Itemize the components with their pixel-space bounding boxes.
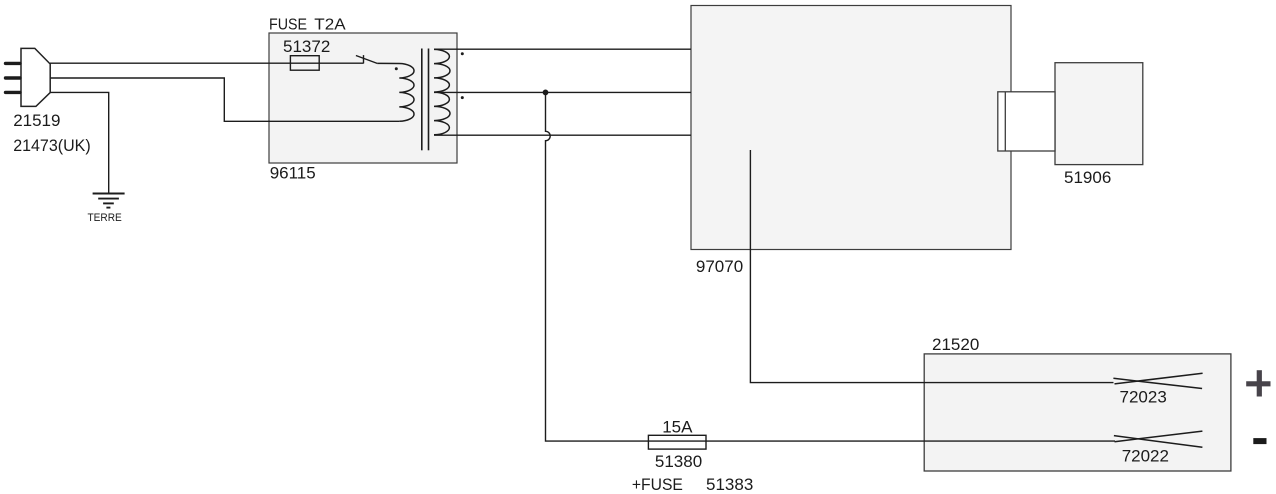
wire secondary top tap to 97070 <box>457 48 691 50</box>
svg-text:72022: 72022 <box>1122 447 1169 466</box>
mains plug 21519 / 21473(UK) <box>21 48 50 106</box>
fuse F2 51380 (15A) <box>648 435 706 449</box>
svg-text:72023: 72023 <box>1120 388 1167 407</box>
switch S1 arm <box>356 56 377 64</box>
svg-text:51383: 51383 <box>706 475 753 494</box>
switch S1 contact tick <box>363 55 365 63</box>
svg-text:21519: 21519 <box>13 111 60 130</box>
transformer T1 secondary polarity dot (middle) <box>461 96 464 99</box>
transformer T1 secondary winding <box>434 49 450 134</box>
svg-text:21520: 21520 <box>932 335 979 354</box>
svg-text:51906: 51906 <box>1064 168 1111 187</box>
transformer T1 primary polarity dot <box>395 67 398 70</box>
wire minus branch (junction down with hop, to 72022) <box>546 92 1116 441</box>
plus terminal symbol <box>1246 370 1270 396</box>
junction dot on middle wire <box>543 90 549 96</box>
svg-text:+FUSE: +FUSE <box>632 475 683 494</box>
splice symbol 72023 <box>1113 373 1202 388</box>
wire live (plug to fuse/switch) <box>50 62 364 64</box>
wire secondary middle tap to 97070 <box>457 91 691 93</box>
module box 96115 (transformer unit) <box>269 33 457 163</box>
ground symbol TERRE <box>93 194 125 208</box>
main unit box 97070 <box>691 6 1011 250</box>
wire neutral (plug to transformer primary bottom) <box>50 78 399 121</box>
secondary tap wires inside box <box>434 49 457 135</box>
wire plus branch (inside 97070 down to 72023) <box>750 150 1113 383</box>
svg-text:T2A: T2A <box>314 16 346 33</box>
transformer T1 primary winding <box>377 63 414 121</box>
splice symbol 72022 <box>1114 431 1203 447</box>
svg-text:96115: 96115 <box>270 164 316 183</box>
svg-text:TERRE: TERRE <box>88 212 122 224</box>
svg-text:15A: 15A <box>662 418 693 437</box>
svg-text:51372: 51372 <box>283 37 330 56</box>
plug pins <box>6 63 21 92</box>
svg-text:97070: 97070 <box>696 257 743 276</box>
box 51906 <box>1055 63 1143 165</box>
transformer T1 secondary polarity dot (top) <box>461 52 464 55</box>
battery box 21520 <box>924 354 1231 471</box>
minus terminal symbol <box>1253 438 1266 444</box>
svg-text:21473(UK): 21473(UK) <box>13 137 91 155</box>
fuse F1 51372 <box>290 56 319 70</box>
transformer core <box>422 49 429 151</box>
svg-text:51380: 51380 <box>655 452 702 471</box>
connector plug of 51906 <box>998 92 1055 151</box>
wire secondary bottom tap to 97070 <box>457 134 691 136</box>
svg-text:FUSE: FUSE <box>269 16 307 33</box>
wire earth (plug to ground) <box>50 92 109 193</box>
